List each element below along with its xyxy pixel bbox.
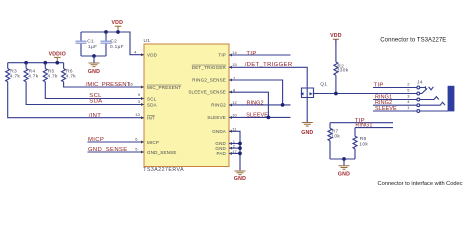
svg-text:GND: GND: [338, 172, 350, 178]
jack sleeve: [420, 110, 448, 112]
svg-text:MICP: MICP: [147, 140, 159, 145]
transistor Q1: [300, 81, 327, 122]
svg-text:17: 17: [232, 149, 237, 154]
svg-text:10: 10: [232, 112, 237, 117]
svg-text:Connector to interface with: Connector to interface with Codec: [377, 181, 462, 187]
svg-text:/INT: /INT: [89, 113, 102, 119]
svg-text:R8: R8: [360, 136, 367, 142]
jack body: [448, 86, 455, 112]
svg-text:/MIC_PRESENT: /MIC_PRESENT: [86, 82, 131, 88]
svg-text:VDD: VDD: [330, 33, 342, 39]
svg-text:TIP: TIP: [218, 53, 226, 58]
wire net RING2 to pin4: [373, 104, 417, 106]
wire net RING1 to pin3: [373, 99, 417, 101]
svg-text:PAD: PAD: [216, 151, 226, 156]
svg-text:TIP: TIP: [246, 51, 256, 57]
U1 pin arrows right: [229, 54, 232, 156]
wire MICP stub: [88, 141, 145, 143]
capacitor C1: [76, 32, 98, 56]
U1 right pin names: [188, 53, 226, 157]
svg-text:R6: R6: [66, 68, 73, 74]
jack ring1 contact: [420, 97, 439, 100]
wire GND pin2: [229, 147, 240, 149]
wire net RING1 codec stub: [355, 128, 393, 137]
svg-text:GND: GND: [215, 146, 226, 151]
svg-text:10k: 10k: [331, 133, 340, 139]
resistor R8: [353, 136, 368, 159]
svg-text:U1: U1: [144, 38, 151, 44]
svg-text:4.7k: 4.7k: [66, 74, 77, 80]
svg-text:GND_SENSE: GND_SENSE: [88, 147, 128, 153]
resistor R5: [43, 63, 144, 99]
wire net TIP to pin2: [373, 87, 417, 89]
resistor R3: [6, 63, 144, 118]
node R5: [43, 61, 47, 65]
svg-text:/DET_TRIGGER: /DET_TRIGGER: [245, 62, 293, 68]
svg-text:VDD: VDD: [112, 20, 124, 26]
svg-text:VDDIO: VDDIO: [49, 51, 66, 57]
svg-text:10k: 10k: [359, 141, 368, 147]
ground under caps: [88, 56, 100, 75]
node cap gnd: [92, 54, 96, 58]
node SLEEVE/pin8: [267, 116, 271, 120]
node VDDIO sym: [55, 61, 59, 65]
wire net SLEEVE pin10: [229, 116, 291, 118]
resistor R4: [24, 63, 144, 105]
wire Q1 gate to J4 pin5: [318, 93, 417, 95]
wire VDD rail to U1 pin 4: [81, 32, 144, 55]
svg-text:0.1µF: 0.1µF: [110, 44, 124, 50]
svg-text:SLEEVE: SLEEVE: [375, 106, 397, 112]
wire GND_SENSE stub: [88, 151, 145, 153]
svg-text:DET_TRIGGER: DET_TRIGGER: [192, 65, 227, 70]
wire RING2_SENSE pin7: [229, 80, 283, 105]
U1 left pin names: [147, 53, 181, 155]
power VDDIO: [49, 51, 66, 62]
svg-text:SDA: SDA: [89, 98, 102, 104]
resistor R2: [334, 39, 349, 93]
node RING2/pin7: [281, 103, 285, 107]
node R4: [24, 61, 28, 65]
wire net TIP codec stub: [330, 123, 393, 129]
pin5: [417, 92, 420, 95]
svg-text:16: 16: [128, 81, 133, 86]
svg-text:13: 13: [135, 112, 140, 117]
svg-text:MIC_PRESENT: MIC_PRESENT: [147, 85, 181, 90]
svg-text:330k: 330k: [337, 68, 349, 74]
jack NC lever pin5: [420, 89, 427, 94]
svg-text:Connector to TS3A227E: Connector to TS3A227E: [380, 37, 446, 43]
svg-text:GND: GND: [234, 176, 246, 182]
node R2/gate: [334, 92, 338, 96]
power VDD at R2: [330, 33, 342, 44]
wire SLEEVE_SENSE pin8: [229, 92, 268, 117]
resistor R7: [328, 128, 340, 159]
svg-text:GNDA: GNDA: [212, 129, 226, 134]
ground R7R8: [338, 159, 350, 178]
ground under Q1: [301, 123, 313, 136]
svg-text:Q1: Q1: [320, 81, 327, 87]
ground under U1: [234, 171, 246, 182]
wire net RING2 pin12: [229, 104, 291, 106]
svg-text:RING2_SENSE: RING2_SENSE: [192, 78, 226, 83]
IC U1 body: [143, 38, 229, 173]
resistor R6: [62, 63, 144, 87]
jack ring2 contact: [420, 102, 445, 105]
wire PAD pin17: [229, 152, 240, 154]
wire R7 R8 bottom: [330, 158, 355, 160]
wire VDDIO rail: [8, 62, 64, 64]
svg-text:INT: INT: [147, 115, 155, 120]
svg-text:15: 15: [232, 62, 237, 67]
wire net SLEEVE to pin1: [373, 110, 417, 112]
svg-text:VDD: VDD: [147, 53, 158, 58]
svg-text:GND: GND: [88, 69, 100, 75]
node VDD sym: [116, 30, 120, 34]
svg-text:C2: C2: [110, 39, 117, 45]
svg-text:R3: R3: [10, 68, 17, 74]
svg-text:MICP: MICP: [88, 137, 104, 143]
jack tip contact: [420, 86, 426, 89]
svg-text:4.7k: 4.7k: [10, 74, 21, 80]
wire GNDA pin11: [229, 131, 240, 170]
svg-text:RING2: RING2: [211, 103, 226, 108]
svg-text:4.7k: 4.7k: [47, 74, 58, 80]
svg-text:J4: J4: [417, 80, 423, 86]
svg-text:TS3A227ERVA: TS3A227ERVA: [143, 167, 184, 173]
svg-text:14: 14: [232, 50, 237, 55]
svg-text:GND: GND: [301, 130, 313, 136]
capacitor C2: [101, 32, 124, 56]
svg-text:C1: C1: [87, 39, 94, 45]
svg-text:4.7k: 4.7k: [28, 74, 39, 80]
power VDD top-left: [112, 20, 124, 32]
svg-text:RING1: RING1: [355, 123, 372, 129]
wire cap bottom rail: [81, 55, 106, 57]
svg-text:RING2: RING2: [247, 101, 264, 107]
svg-text:SLEEVE: SLEEVE: [207, 115, 226, 120]
wire GND pin1: [229, 143, 240, 145]
U1 pin arrows left: [141, 53, 144, 153]
svg-text:SLEEVE: SLEEVE: [246, 113, 268, 119]
wire net TIP pin14: [229, 54, 291, 56]
svg-text:R4: R4: [29, 68, 36, 74]
svg-text:R5: R5: [48, 68, 55, 74]
svg-text:1µF: 1µF: [88, 44, 97, 50]
svg-text:SCL: SCL: [147, 96, 157, 101]
svg-text:TIP: TIP: [374, 82, 384, 88]
svg-text:GND_SENSE: GND_SENSE: [147, 150, 177, 155]
node C2 top: [104, 30, 108, 34]
svg-text:12: 12: [232, 100, 237, 105]
wire net /DET_TRIGGER pin15: [229, 67, 307, 86]
svg-text:SLEEVE_SENSE: SLEEVE_SENSE: [188, 90, 226, 95]
connector J4: [373, 80, 454, 113]
node bottom gnd: [342, 157, 346, 161]
svg-text:SDA: SDA: [147, 102, 157, 107]
